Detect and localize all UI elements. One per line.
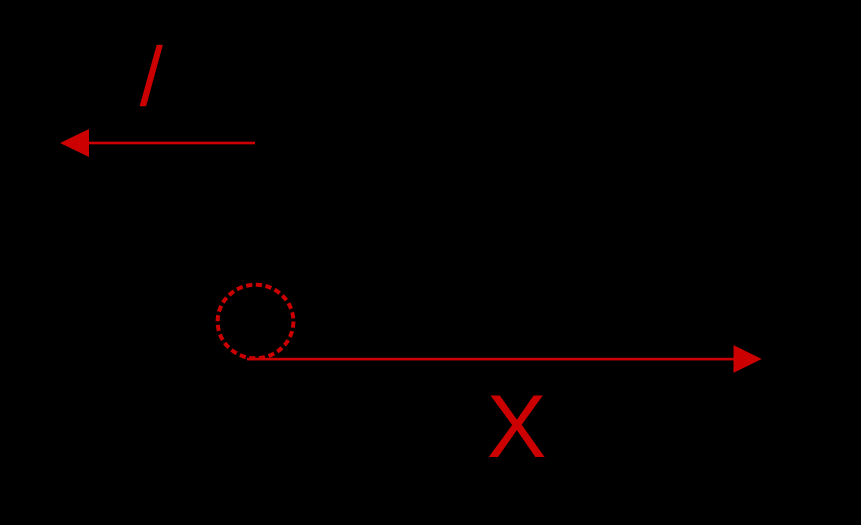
arrowhead: current direction (left) xyxy=(60,129,89,157)
wire: current arrow shaft xyxy=(88,142,255,145)
svg-text:X: X xyxy=(487,376,547,476)
arrowhead: X axis (right) xyxy=(734,345,762,373)
label I (current) xyxy=(140,45,163,106)
dashed circle (loop) xyxy=(218,285,294,359)
wire: X axis shaft xyxy=(247,358,735,361)
